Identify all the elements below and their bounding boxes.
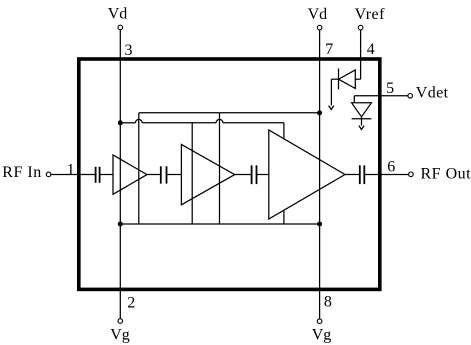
svg-text:6: 6 [387,158,395,175]
svg-text:4: 4 [367,41,375,58]
svg-text:2: 2 [127,295,135,312]
svg-text:Vdet: Vdet [416,85,449,102]
svg-text:Vg: Vg [312,326,332,343]
svg-text:1: 1 [67,162,75,179]
svg-text:Vd: Vd [308,6,328,23]
svg-text:Vref: Vref [355,6,386,23]
svg-text:7: 7 [325,41,333,58]
svg-text:RF Out: RF Out [421,165,471,182]
svg-text:Vg: Vg [110,326,130,343]
svg-text:RF In: RF In [2,164,41,181]
svg-text:Vd: Vd [108,6,128,23]
svg-text:3: 3 [125,42,133,59]
svg-text:5: 5 [386,80,394,97]
svg-text:8: 8 [324,294,332,311]
